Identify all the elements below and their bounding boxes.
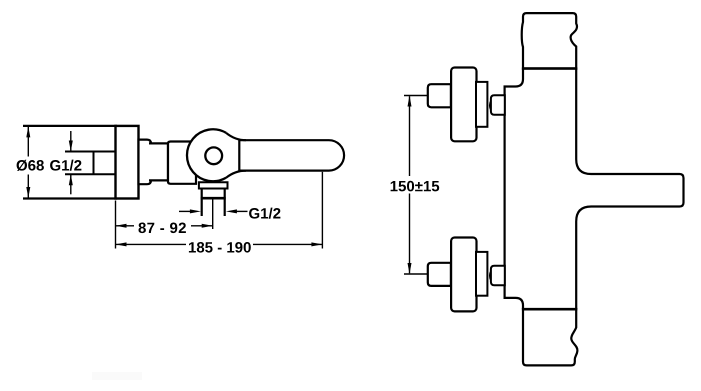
150 dim line lower segment (409, 194, 411, 274)
Ø68 dimension line lower (27, 175, 29, 198)
185-190 left arrow (116, 242, 127, 246)
87-92 dimension line right part (191, 225, 213, 227)
valve round body (arc, open at handle side) (187, 129, 226, 181)
G1/2 outlet right arrow (232, 210, 248, 212)
outlet collar (199, 182, 228, 188)
handle end extension line (321, 172, 323, 249)
body hub piece B (168, 142, 196, 184)
top valve: spacer (476, 82, 487, 127)
handle top fillet (226, 133, 246, 140)
150 arrow up (408, 96, 412, 107)
top valve: nut arc (490, 101, 491, 111)
main body outline (505, 69, 684, 310)
G1/2 inlet top extension line (65, 151, 116, 153)
bottom valve: spacer (476, 252, 487, 296)
lever handle (side) (239, 140, 344, 170)
neck (149, 143, 168, 180)
outlet centre extension line (212, 199, 214, 229)
G1/2 dim arrow down (above) (70, 131, 72, 151)
G1/2 dim arrow up (below) (70, 175, 72, 195)
handle bottom fillet (226, 171, 246, 178)
outlet nut line (201, 197, 226, 200)
bottom union nut line (522, 308, 577, 311)
Ø68 arrow down (26, 187, 30, 198)
top valve: nut (491, 95, 505, 115)
inner circle (205, 147, 222, 164)
label G1/2 (inlet) (50, 160, 81, 171)
top valve: knob (451, 68, 476, 142)
bottom valve: nut arc (490, 271, 491, 281)
top union nut line (522, 67, 577, 70)
87-92 left arrow (116, 224, 127, 228)
bottom valve: safety stub (428, 263, 451, 286)
150 arrow down (408, 263, 412, 274)
Ø68 bottom extension line (23, 197, 117, 199)
185-190 dimension line right part (253, 243, 322, 245)
185-190 right arrow (311, 242, 322, 246)
150 dim top extension line (404, 95, 427, 97)
label 87 - 92 (139, 223, 186, 234)
label Ø68 (17, 160, 44, 171)
bottom valve: nut (491, 266, 505, 286)
87-92 dimension line left part (116, 225, 135, 227)
G1/2 inlet bottom extension line (65, 173, 116, 175)
outlet pipe left edge (201, 189, 203, 217)
label 150±15 (391, 181, 440, 192)
label 185 - 190 (189, 242, 251, 253)
wall flange (116, 126, 139, 199)
87-92 right arrow (202, 224, 213, 228)
185-190 dimension line left part (116, 243, 187, 245)
Ø68 arrow up (26, 126, 30, 137)
top supply pipe with break (522, 13, 577, 68)
bottom supply pipe with break (523, 309, 577, 365)
top valve: safety stub (428, 84, 451, 107)
escutcheon piece A (139, 140, 152, 185)
bottom valve: knob (451, 238, 476, 312)
150 dim bottom extension line (404, 273, 427, 275)
150 dim line upper segment (409, 96, 411, 176)
label G1/2 (outlet) (249, 208, 280, 219)
inlet pipe left edge (93, 152, 95, 175)
G1/2 outlet left arrow (179, 210, 195, 212)
outlet pipe right edge (224, 189, 226, 217)
faint watermark remnants (92, 372, 120, 380)
Ø68 dimension line upper (27, 127, 29, 157)
wall plane extension line (115, 201, 117, 249)
Ø68 top extension line (23, 125, 117, 127)
